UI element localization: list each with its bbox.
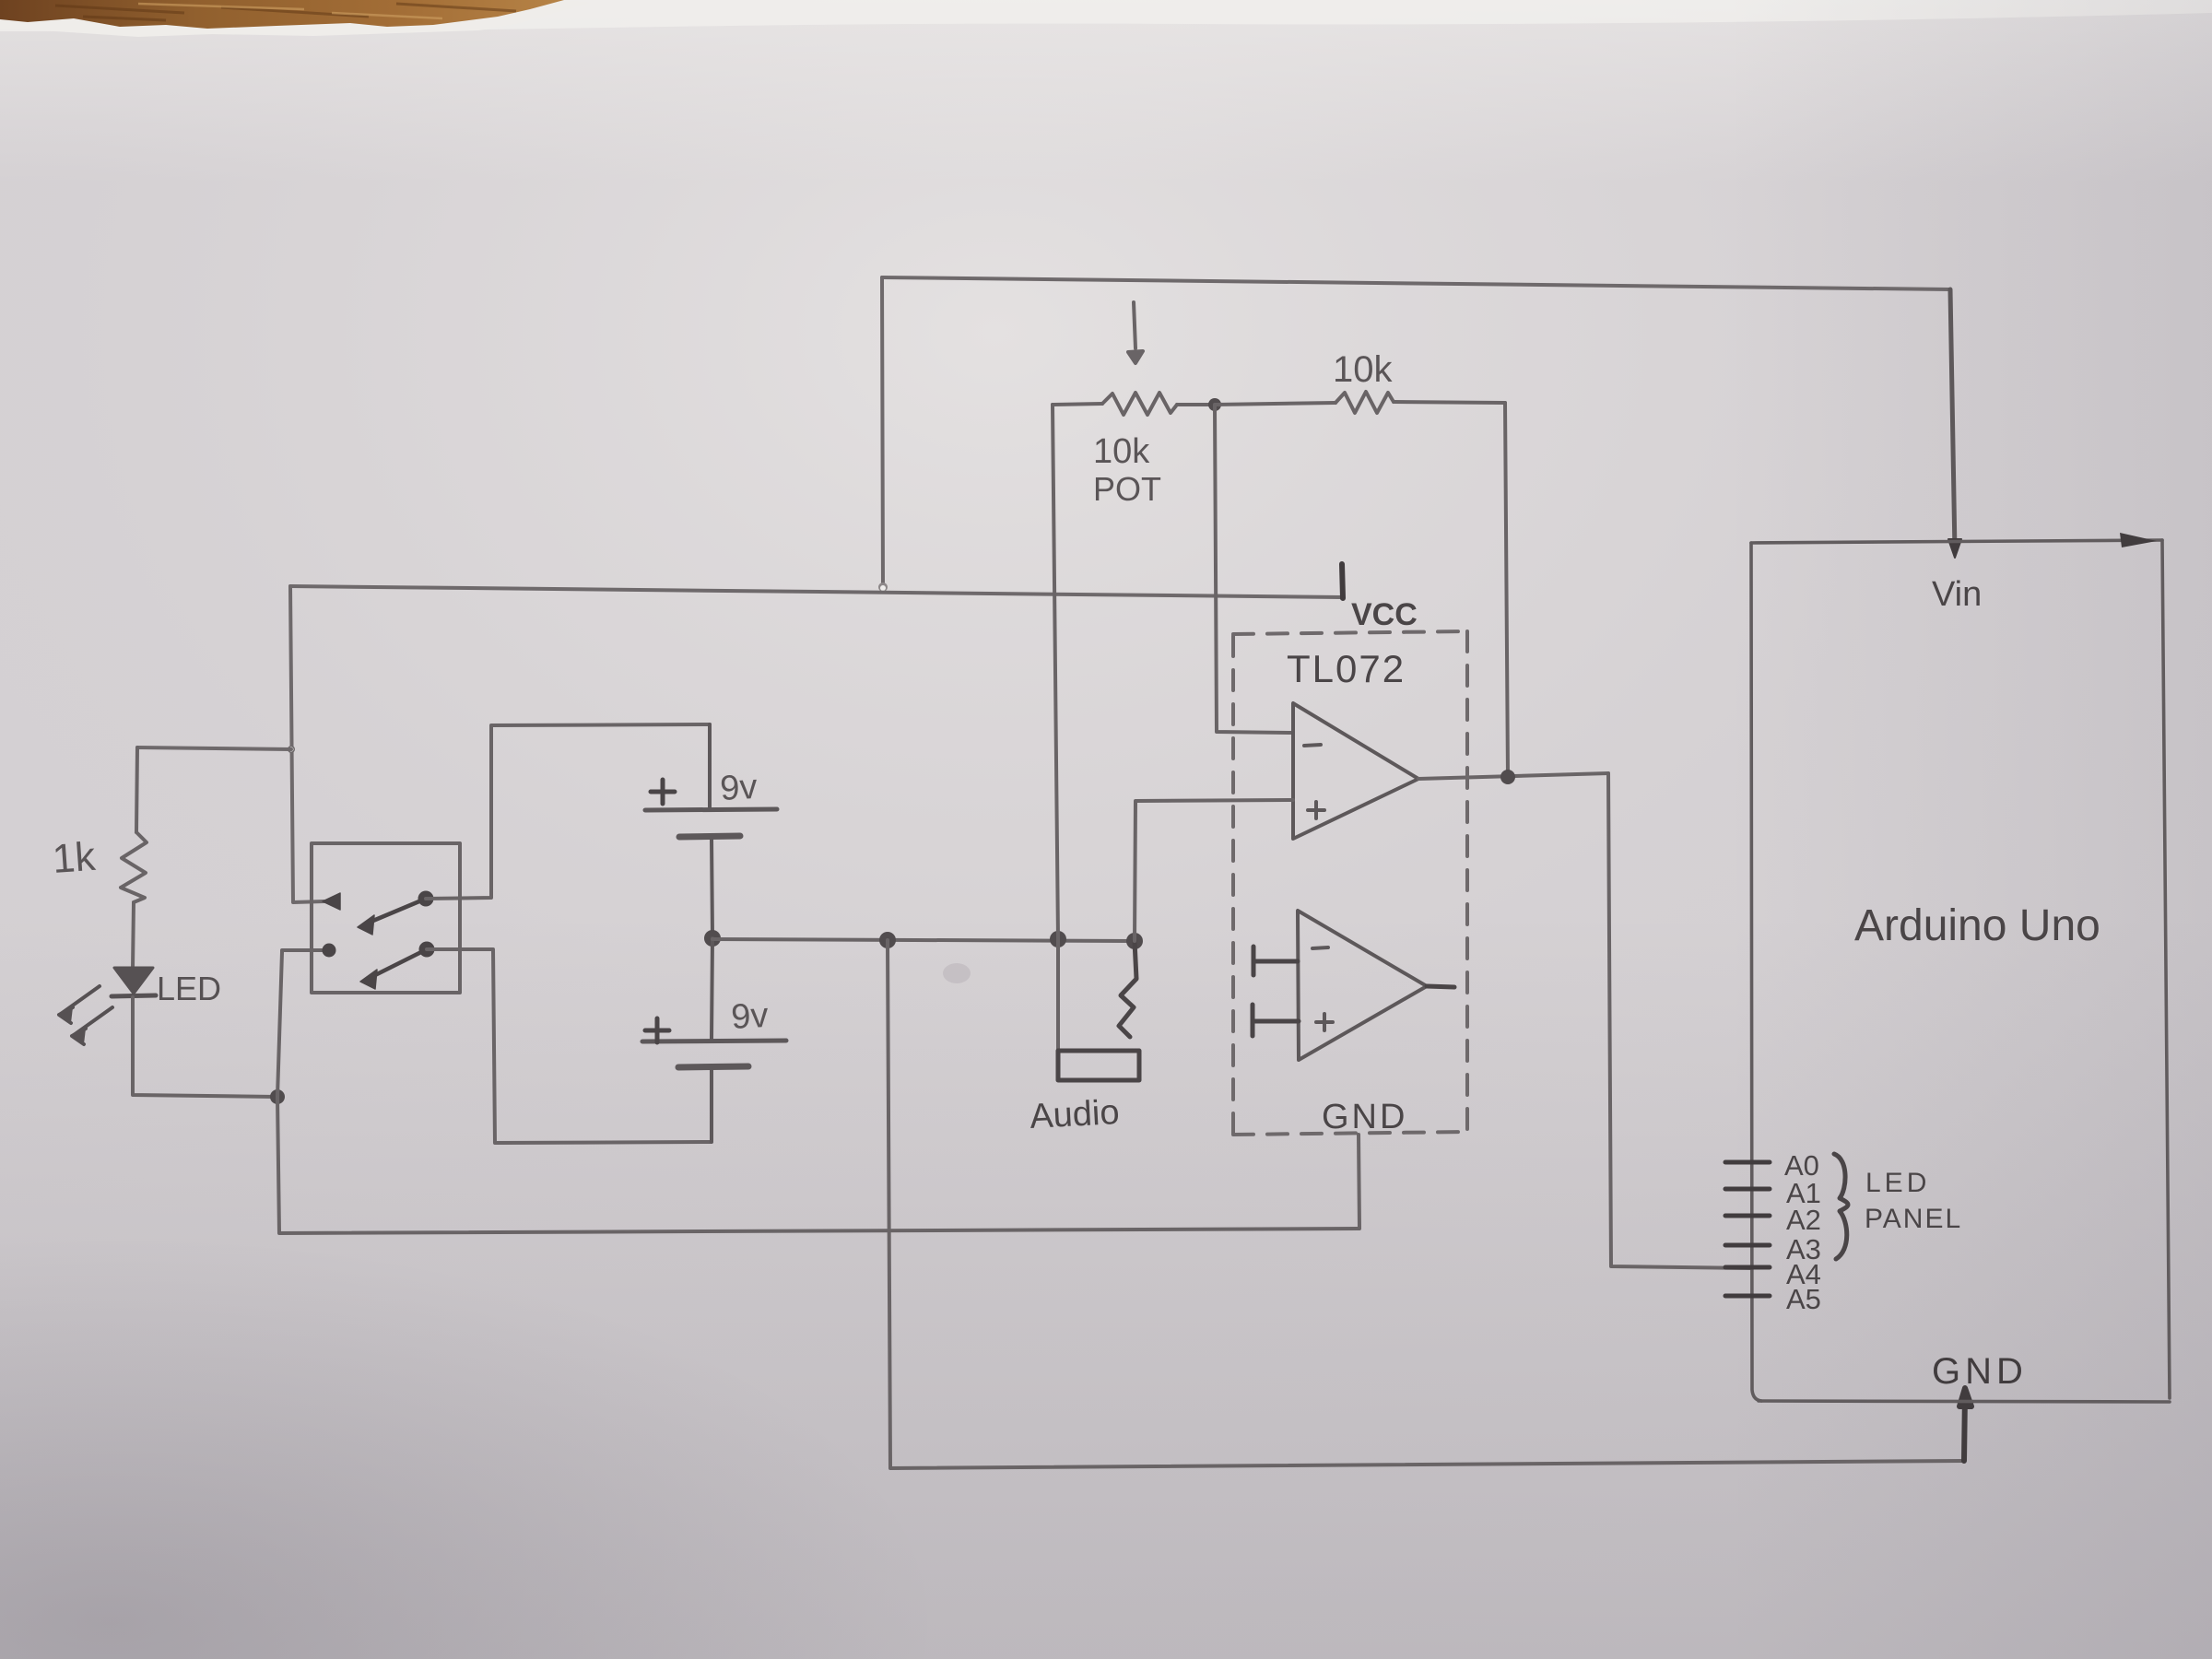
- wire: feedback resistor down to op-amp output node: [1505, 403, 1508, 776]
- label: + of BT1: [651, 780, 675, 804]
- LED emission arrows: [59, 986, 112, 1044]
- wood table edge: [0, 0, 590, 37]
- svg-text:Vin: Vin: [1932, 575, 1982, 614]
- wire: battery midpoint to audio/op-amp column: [712, 939, 1135, 941]
- wire: junction down and right to op-amp GND run: [277, 1097, 1359, 1233]
- IC U1 TL072 dashed package box: [1233, 631, 1468, 1135]
- switch throw 2 contact: [419, 942, 435, 958]
- wire: pot left terminal down to audio jack sleeve: [1053, 405, 1058, 1050]
- wire: Vin drop from top rail: [1950, 289, 1955, 552]
- Vin arrowhead: [1948, 539, 1961, 558]
- svg-text:Audio: Audio: [1029, 1093, 1120, 1136]
- wire: junction up to switch pole 2: [277, 950, 323, 1097]
- node: battery midpoint junction: [704, 930, 721, 947]
- node: junction to 1k resistor branch: [288, 746, 295, 753]
- svg-text:10k: 10k: [1333, 349, 1393, 390]
- svg-text:Arduino Uno: Arduino Uno: [1854, 901, 2100, 950]
- svg-text:PANEL: PANEL: [1865, 1204, 1962, 1234]
- svg-text:1k: 1k: [51, 834, 98, 882]
- wire: top horizontal rail: [882, 277, 1950, 289]
- node: junction to Arduino GND run: [879, 932, 896, 948]
- LED D1: [112, 968, 156, 1093]
- node: junction pot-left / audio sleeve column: [1050, 931, 1066, 947]
- switch throw 1 contact: [418, 891, 434, 907]
- switch pole 2 contact: [323, 944, 336, 958]
- wire: mid horizontal rail to VCC: [290, 586, 1342, 597]
- wire: LED bottom to junction: [133, 1093, 276, 1097]
- svg-text:GND: GND: [1932, 1351, 2028, 1392]
- op-amp U1A: [1293, 703, 1418, 839]
- audio jack J1 body: [1058, 1051, 1139, 1080]
- wire: branch to 1k resistor top: [137, 747, 291, 749]
- svg-text:TL072: TL072: [1287, 647, 1406, 690]
- op-amp U1B: [1298, 911, 1427, 1060]
- wire: left vertical (mid rail down to switch pole 1): [290, 586, 324, 902]
- svg-text:LED: LED: [1865, 1168, 1930, 1198]
- wire: down from junction and along bottom to Arduino GND: [888, 940, 1964, 1468]
- wire: output down to Arduino A4: [1608, 773, 1751, 1268]
- battery BT2 9V: [642, 938, 786, 1142]
- label: + of BT2: [645, 1018, 669, 1042]
- wire: U1 GND stub down to ground run: [1359, 1135, 1359, 1229]
- switch pole 1 contact: [323, 893, 340, 910]
- switch S1 DPDT box: [312, 843, 460, 993]
- arrowhead at Arduino top-right (wire arriving): [2120, 533, 2157, 547]
- wire: junction to feedback resistor: [1215, 403, 1335, 405]
- svg-text:9v: 9v: [730, 996, 769, 1037]
- wire: pot junction down to op-amp inverting input: [1215, 406, 1292, 733]
- wire: vertical from top rail down to mid rail: [882, 277, 883, 587]
- node: junction audio tip / op-amp + input: [1126, 933, 1143, 949]
- svg-text:10k: 10k: [1093, 432, 1150, 471]
- svg-text:VCC: VCC: [1351, 597, 1418, 632]
- node: output/feedback junction: [1500, 770, 1515, 784]
- op-amp U1B inverting input stub: [1253, 947, 1298, 975]
- resistor R2 10k feedback: [1335, 392, 1505, 413]
- op-amp U1B output stub: [1427, 986, 1454, 987]
- switch lever 1: [358, 899, 426, 935]
- svg-text:A5: A5: [1786, 1283, 1821, 1315]
- switch lever 2: [360, 949, 427, 989]
- potentiometer RV1 10k: [1053, 302, 1215, 415]
- wire: throw2 down and over to battery 2 -: [427, 949, 711, 1143]
- wire: op-amp U1A + input from audio tip junction: [1135, 800, 1293, 941]
- labels: A0-A5: [1784, 1149, 1821, 1315]
- svg-text:LED: LED: [157, 970, 221, 1007]
- resistor R1 1k: [121, 747, 147, 969]
- faint pencil smudge: [943, 963, 971, 983]
- audio jack tip spring contact: [1119, 941, 1136, 1037]
- svg-text:A2: A2: [1786, 1204, 1821, 1236]
- wire: GND pin arrow into Arduino: [1959, 1388, 1971, 1461]
- VCC tick: [1342, 564, 1343, 598]
- Arduino Uno board box: [1751, 540, 2170, 1402]
- Arduino analog pins A0-A5 ticks: [1725, 1162, 1770, 1296]
- node: junction of vertical with mid rail: [878, 582, 888, 592]
- svg-text:POT: POT: [1093, 470, 1161, 508]
- op-amp U1B non-inverting input stub: [1253, 1005, 1299, 1036]
- node: LED / switch pole2 / ground-run junction: [270, 1089, 285, 1104]
- wire: op-amp U1A output: [1418, 773, 1608, 779]
- node: pot wiper-side junction: [1208, 398, 1221, 411]
- brace for LED panel pins: [1834, 1154, 1848, 1259]
- svg-text:GND: GND: [1322, 1098, 1407, 1136]
- wire: throw1 up and over to battery 1 +: [426, 724, 710, 899]
- battery BT1 9V: [645, 724, 777, 936]
- svg-text:9v: 9v: [719, 768, 758, 808]
